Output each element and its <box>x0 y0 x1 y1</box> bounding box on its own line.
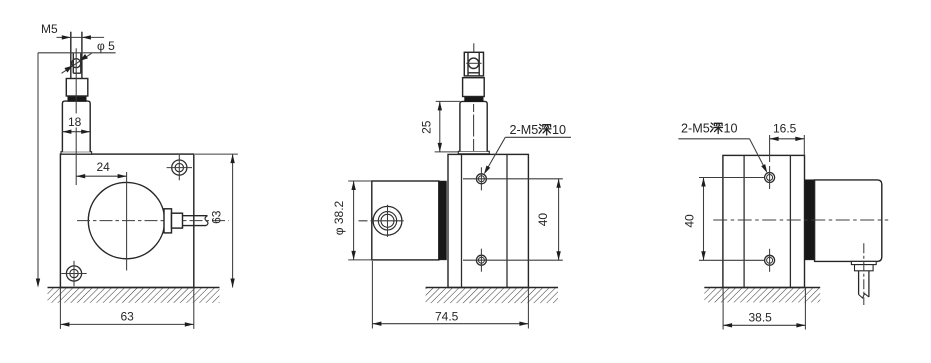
clevis inner slot V1 <box>73 53 81 73</box>
stem cylinder V2 <box>460 101 487 151</box>
wire rope centerline V1 <box>75 48 77 185</box>
dimension 63 bottom V1 <box>60 288 193 329</box>
cable with break V1 <box>183 216 208 226</box>
clevis outer sides V1 <box>71 32 82 79</box>
svg-text:2-M5: 2-M5 <box>510 123 539 137</box>
cable connector flange V1 <box>164 209 172 233</box>
svg-text:40: 40 <box>536 213 550 227</box>
screw hole bottom-left V1 <box>61 261 86 286</box>
screw hole bottom V3 <box>765 249 775 272</box>
eyelet hole circle V1 <box>72 59 81 68</box>
wire height leader with down arrow V1 <box>36 53 40 288</box>
black gap band V2 <box>439 181 447 260</box>
screw hole top V3 <box>765 166 775 189</box>
ground line and hatch V3 <box>704 288 820 303</box>
label 2-M5 deep 10 V2 <box>484 123 571 174</box>
body plate V1 <box>60 154 193 287</box>
svg-text:38.5: 38.5 <box>749 310 773 324</box>
dimension 25 <box>420 101 460 151</box>
svg-text:16.5: 16.5 <box>773 122 797 136</box>
cable connector body V1 <box>172 213 183 228</box>
dimension 63 vertical V1 <box>210 154 235 287</box>
svg-text:φ 5: φ 5 <box>97 39 115 53</box>
svg-text:10: 10 <box>552 123 566 137</box>
can axis dash-dot centerline V3 <box>713 219 888 221</box>
dimension 40 V3 <box>683 178 765 261</box>
connector body V3 <box>855 265 874 271</box>
svg-text:M5: M5 <box>41 22 58 36</box>
dimension 16.5 <box>770 122 805 162</box>
shaft end concentric circles V2 <box>371 205 403 237</box>
dimension phi5 leader <box>62 39 116 73</box>
stem centerline V2 <box>473 104 475 151</box>
ground line and hatch V2 <box>426 288 558 304</box>
connector flange V3 <box>851 261 876 264</box>
screw hole top-right V1 <box>167 155 192 180</box>
dimension 40 V2 <box>463 179 563 260</box>
svg-text:10: 10 <box>724 122 738 136</box>
svg-text:24: 24 <box>97 160 111 174</box>
svg-text:63: 63 <box>121 309 135 323</box>
ground line and hatch V1 <box>48 288 220 303</box>
mounting plate V3 <box>723 155 805 287</box>
lock nut V1 <box>66 79 88 97</box>
eyelet hole circle V2 <box>466 58 481 68</box>
cable plug with break V3 <box>859 271 869 298</box>
mounting plate V2 <box>448 154 528 287</box>
seal ring black band V1 <box>68 96 86 101</box>
wire rope line V2 <box>473 43 475 52</box>
clevis V2 <box>464 52 483 76</box>
svg-text:74.5: 74.5 <box>435 309 459 323</box>
black gap band V3 <box>805 180 815 260</box>
sensor can V3 <box>815 180 882 262</box>
drum axis dash line V2 <box>359 220 372 222</box>
dimension 24 <box>76 160 126 178</box>
dimension M5 <box>41 22 104 39</box>
svg-text:25: 25 <box>420 120 434 134</box>
vertical centerline of drum circle <box>126 172 128 271</box>
drum housing block V2 <box>372 181 439 260</box>
svg-text:2-M5: 2-M5 <box>681 122 710 136</box>
dimension 18 <box>62 115 90 134</box>
cable centerline V3 <box>863 243 865 305</box>
horizontal dash-dot centerline through drum and cable <box>77 220 229 222</box>
dimension 38.5 <box>723 288 805 330</box>
screw hole bottom V2 <box>476 249 486 272</box>
dimension 74.5 <box>372 261 528 329</box>
svg-text:40: 40 <box>683 214 697 228</box>
seal ring black band V2 <box>465 97 483 102</box>
stem base flange V2 <box>458 151 489 154</box>
svg-text:18: 18 <box>68 115 82 129</box>
dimension phi 38.2 <box>332 181 372 260</box>
leader top line across clevis V1 <box>38 52 116 54</box>
lock nut V2 <box>463 78 485 97</box>
extension line top right V1 <box>195 153 238 155</box>
drum circle V1 <box>88 182 164 258</box>
stem base flange V1 <box>61 152 92 154</box>
svg-text:φ 38.2: φ 38.2 <box>332 200 346 235</box>
screw hole top V2 <box>476 167 486 190</box>
stem cylinder V1 <box>62 101 90 152</box>
svg-text:63: 63 <box>210 210 224 224</box>
label 2-M5 deep 10 V3 <box>678 122 767 174</box>
